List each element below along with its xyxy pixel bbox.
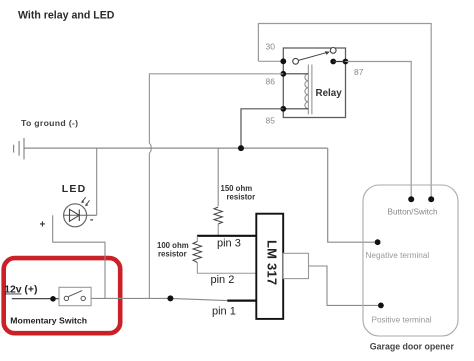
LED emission arrows (81, 197, 89, 206)
wire tab to positive terminal (309, 266, 381, 305)
wire top bus from node 30 corner to garage opener drop (258, 24, 431, 197)
underline under 12v (4, 293, 21, 295)
label 100 ohm resistor (157, 241, 189, 259)
relay switch lever with arrowhead (298, 51, 330, 60)
wire 85 down to ground bus (241, 109, 283, 148)
junction dot relay NO inner (330, 59, 336, 65)
svg-text:87: 87 (354, 67, 364, 77)
label pin 1 (212, 306, 236, 318)
wire from top bus into relay terminal 30 (258, 60, 283, 62)
svg-text:Negative terminal: Negative terminal (366, 251, 430, 260)
label 85 (266, 116, 276, 126)
svg-text:resistor: resistor (227, 193, 256, 202)
label Positive terminal (372, 316, 432, 325)
label Button/Switch (388, 207, 439, 216)
label To ground (-) (21, 118, 78, 128)
wire coil stub 86 (283, 73, 308, 75)
wire 87 to garage opener button (346, 62, 412, 197)
junction dot ground / 85 wire (238, 145, 244, 151)
wire NO inner to 87 terminal (333, 61, 345, 63)
svg-text:Momentary Switch: Momentary Switch (10, 315, 87, 325)
junction dot relay terminal 87 (343, 59, 349, 65)
terminal dot positive (378, 303, 384, 309)
label 86 (266, 77, 276, 87)
label Momentary Switch (10, 315, 87, 325)
relay coil (305, 65, 312, 115)
IC U1 LM 317 (256, 214, 283, 319)
svg-text:Garage door opener: Garage door opener (370, 341, 455, 351)
LED D1 (64, 204, 97, 227)
wire coil stub 85 (283, 108, 308, 110)
resistor R1 150 ohm zigzag (214, 207, 222, 236)
svg-text:85: 85 (266, 116, 276, 126)
wire 86 to momentary switch line (149, 74, 283, 299)
label pin 2 (211, 274, 235, 286)
svg-text:Button/Switch: Button/Switch (388, 207, 439, 216)
svg-text:LM 317: LM 317 (264, 240, 279, 285)
svg-text:With relay and LED: With relay and LED (18, 9, 115, 21)
wire 150 ohm resistor top lead from ground bus (217, 148, 219, 206)
wire switch output to pin 1 (91, 298, 227, 300)
junction dot on 12v feed (50, 296, 56, 302)
label LED (62, 183, 87, 195)
wire pin 2 (197, 272, 257, 274)
terminal dot button 2 (428, 196, 434, 202)
wire ground bus (24, 147, 328, 149)
svg-text:pin 3: pin 3 (217, 237, 241, 249)
wire pin 1 (227, 300, 256, 302)
junction dot relay terminal 86 (280, 71, 286, 77)
svg-text:30: 30 (266, 42, 276, 52)
label 30 (266, 42, 276, 52)
label Relay (316, 88, 343, 99)
terminal dot button 1 (408, 196, 414, 202)
label 87 (354, 67, 364, 77)
junction dot relay terminal 85 (280, 106, 286, 112)
svg-text:Positive terminal: Positive terminal (372, 316, 432, 325)
junction dot relay terminal 30 (280, 58, 286, 64)
label - at LED cathode (90, 215, 93, 226)
wire ground bus down to negative terminal (328, 148, 378, 242)
svg-text:+: + (40, 220, 46, 231)
wire LED cathode up to ground bus (96, 148, 98, 215)
label + at LED anode (40, 220, 46, 231)
label 150 ohm resistor (221, 184, 256, 202)
svg-text:-: - (90, 215, 93, 226)
svg-text:To ground (-): To ground (-) (21, 118, 78, 128)
svg-text:resistor: resistor (158, 250, 187, 259)
LM 317 heatsink tab (283, 253, 308, 278)
label Garage door opener (370, 341, 455, 351)
terminal dot negative (375, 239, 381, 245)
title text "With relay and LED" (18, 9, 115, 21)
ground symbol (14, 138, 24, 159)
resistor R2 100 ohm with leads (193, 236, 202, 273)
relay switch common contact circle (293, 58, 299, 64)
junction dot switch output / 86 wire (167, 295, 173, 301)
svg-text:pin 2: pin 2 (211, 274, 235, 286)
wire pin 3 (197, 235, 257, 237)
svg-text:LED: LED (62, 183, 87, 195)
relay K1 box (283, 48, 345, 118)
wire 12v feed to switch (12, 298, 59, 300)
wire LED anode to switch output (53, 215, 105, 298)
label Negative terminal (366, 251, 430, 260)
relay switch NO contact circle (330, 48, 336, 54)
svg-text:86: 86 (266, 77, 276, 87)
svg-text:Relay: Relay (316, 88, 343, 99)
garage door opener box (363, 185, 458, 336)
momentary switch highlight red rounded box (4, 258, 121, 333)
svg-text:pin 1: pin 1 (212, 306, 236, 318)
label pin 3 (217, 237, 241, 249)
momentary switch S1 box (59, 287, 91, 305)
label 12v (+) (4, 284, 37, 295)
